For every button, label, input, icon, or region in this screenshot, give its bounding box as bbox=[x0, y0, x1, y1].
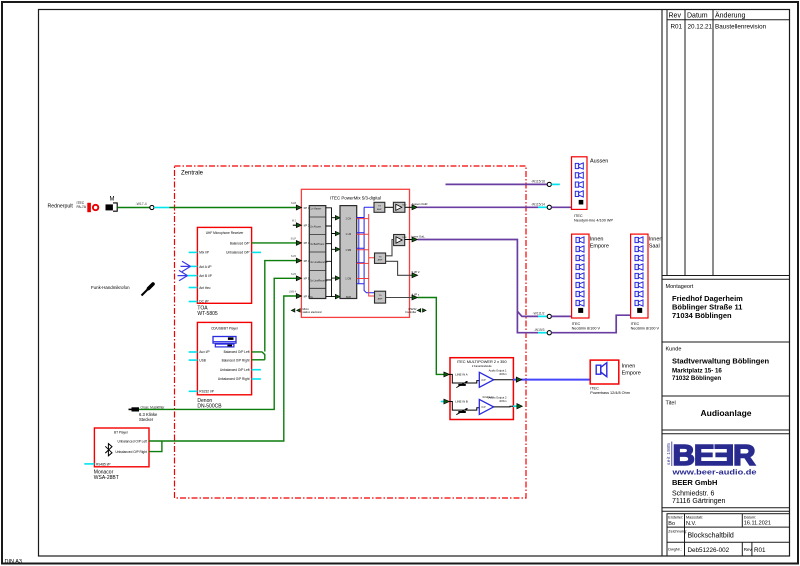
wire Denon Balanced O/P Left to mixer input 4 (green) bbox=[252, 261, 297, 360]
svg-text:ITEC: ITEC bbox=[631, 322, 640, 326]
output arrow bbox=[412, 273, 418, 278]
svg-text:RS232 I/P: RS232 I/P bbox=[199, 390, 214, 394]
wire Monacor O/P Right joins (green) bbox=[149, 441, 162, 452]
svg-text:Balanced O/P Right: Balanced O/P Right bbox=[222, 358, 250, 362]
DSP block A3 bbox=[375, 291, 386, 303]
svg-text:AMP: AMP bbox=[378, 297, 383, 300]
svg-text:UHF Microphone Receiver: UHF Microphone Receiver bbox=[206, 231, 244, 235]
svg-text:Marktplatz 15- 16: Marktplatz 15- 16 bbox=[672, 368, 722, 375]
BT player U3 Monacor WSA-28BT box bbox=[94, 428, 149, 467]
matrix input arrows bbox=[335, 216, 340, 221]
speaker 5 bbox=[576, 273, 584, 279]
svg-text:Ant B I/P: Ant B I/P bbox=[199, 274, 212, 278]
svg-text:Zeichnung:: Zeichnung: bbox=[668, 530, 687, 534]
svg-text:Montageort: Montageort bbox=[666, 284, 694, 290]
speaker 8 bbox=[576, 300, 584, 306]
wire W115/14 mixer to Aussen speakers (purple) bbox=[418, 206, 538, 208]
svg-text:TG: TG bbox=[378, 206, 381, 208]
svg-text:Massstab:: Massstab: bbox=[686, 516, 703, 520]
svg-text:DwgNr.:: DwgNr.: bbox=[668, 548, 682, 552]
amp input B arrow bbox=[444, 399, 450, 404]
speaker 4 bbox=[635, 264, 643, 270]
separator bbox=[662, 395, 790, 397]
svg-text:-W111/2: -W111/2 bbox=[533, 312, 545, 316]
TOA unbalanced stub (cyan) bbox=[252, 251, 261, 253]
svg-text:4Ohm: 4Ohm bbox=[499, 372, 507, 376]
svg-text:100V: 100V bbox=[402, 205, 407, 207]
svg-text:USB: USB bbox=[199, 358, 206, 362]
svg-text:Rev: Rev bbox=[744, 547, 753, 552]
internal blue bus wires bbox=[357, 218, 364, 284]
output arrow bbox=[412, 205, 418, 210]
wire amp to subwoofer (blue) bbox=[513, 379, 590, 381]
svg-text:1 CH: 1 CH bbox=[345, 218, 351, 221]
svg-text:-W115/18: -W115/18 bbox=[531, 180, 545, 184]
svg-text:Datum: Datum bbox=[687, 13, 708, 20]
svg-text:Titel: Titel bbox=[666, 401, 676, 407]
DSP block A1 bbox=[374, 202, 385, 212]
svg-text:4x LineReceive: 4x LineReceive bbox=[310, 261, 328, 264]
svg-text:Mix I/P: Mix I/P bbox=[199, 251, 209, 255]
svg-text:Zentrale: Zentrale bbox=[181, 171, 204, 177]
wire Denon Balanced O/P Right joins (green) bbox=[252, 359, 265, 361]
svg-text:Rev: Rev bbox=[669, 13, 682, 20]
svg-text:ITEC PowerMix 5/3-digital: ITEC PowerMix 5/3-digital bbox=[330, 195, 381, 200]
svg-text:M 2: M 2 bbox=[292, 220, 297, 223]
svg-text:Deb51226-002: Deb51226-002 bbox=[688, 547, 730, 554]
separator bbox=[662, 341, 790, 343]
svg-text:www.beer-audio.de: www.beer-audio.de bbox=[671, 468, 756, 477]
svg-text:Unbalanced O/P Left: Unbalanced O/P Left bbox=[117, 440, 147, 444]
wire DSP2 up to amp2 bbox=[386, 240, 394, 256]
wire amp A to border bbox=[494, 379, 513, 381]
svg-text:2x Alcove: 2x Alcove bbox=[310, 226, 321, 229]
Zentrale boundary (dashed red) bbox=[175, 166, 527, 498]
subwoofer LS4 Innen Empore box bbox=[590, 360, 619, 384]
op-amp A (channel A power stage) bbox=[479, 372, 493, 387]
speaker 2 bbox=[575, 172, 583, 178]
wireless handheld microphone icon bbox=[142, 289, 149, 296]
loudspeaker group LS1 Aussen box bbox=[572, 157, 588, 210]
svg-text:NeoSlim 8/100 V: NeoSlim 8/100 V bbox=[572, 326, 601, 330]
svg-text:CD/USB/BT Player: CD/USB/BT Player bbox=[211, 327, 239, 331]
svg-text:Aussen: Aussen bbox=[590, 159, 608, 165]
output 2 cyan stub bbox=[513, 405, 517, 407]
svg-text:PA-7A: PA-7A bbox=[77, 205, 87, 209]
wire amp1 to border bbox=[405, 206, 412, 208]
svg-text:2 Kanal Endstufe: 2 Kanal Endstufe bbox=[472, 364, 492, 368]
svg-text:DIN A3: DIN A3 bbox=[5, 559, 22, 565]
svg-text:4Ohm: 4Ohm bbox=[499, 399, 507, 403]
amp channel B wiring with level control bbox=[450, 402, 480, 411]
small table grid bbox=[667, 514, 790, 556]
svg-text:Innen: Innen bbox=[622, 363, 636, 369]
svg-text:Empore: Empore bbox=[590, 244, 609, 250]
svg-text:DN-500CB: DN-500CB bbox=[197, 403, 222, 409]
subwoofer speaker symbol bbox=[596, 365, 601, 374]
svg-text:ITEC MULTIPOWER 2 x 350: ITEC MULTIPOWER 2 x 350 bbox=[457, 359, 508, 364]
svg-text:1 SM: 1 SM bbox=[345, 249, 351, 252]
svg-text:Schmiedstr. 6: Schmiedstr. 6 bbox=[672, 491, 715, 498]
svg-text:Controller: Controller bbox=[405, 310, 416, 314]
speaker 5 bbox=[635, 273, 643, 279]
amp input A arrow bbox=[444, 372, 450, 377]
svg-text:ITEC: ITEC bbox=[572, 322, 581, 326]
svg-text:LINE IN B: LINE IN B bbox=[455, 399, 468, 403]
wire amp B to border bbox=[494, 405, 513, 408]
wire mic to connector (green) bbox=[117, 207, 150, 209]
svg-text:Ant thru: Ant thru bbox=[199, 286, 210, 290]
svg-text:Empore: Empore bbox=[622, 370, 641, 376]
internal red bus wires bbox=[357, 219, 369, 279]
wire amp2 to border bbox=[405, 239, 412, 241]
speaker 6 bbox=[576, 282, 584, 288]
svg-text:71116 Gärtringen: 71116 Gärtringen bbox=[672, 498, 726, 505]
svg-text:station electronic: station electronic bbox=[303, 310, 323, 314]
svg-text:Neodym-line 4/100 WP: Neodym-line 4/100 WP bbox=[574, 218, 614, 222]
svg-text:R01: R01 bbox=[671, 24, 683, 31]
svg-text:TG: TG bbox=[378, 295, 381, 297]
svg-text:R01: R01 bbox=[754, 547, 766, 554]
wire TOA Balanced O/P to mixer input 3 (green) bbox=[252, 242, 297, 244]
svg-text:ITEC: ITEC bbox=[574, 214, 583, 218]
speaker 8 bbox=[635, 300, 643, 306]
mixer input block bbox=[309, 206, 326, 299]
svg-text:-W115/14: -W115/14 bbox=[531, 202, 545, 206]
svg-text:Ant A I/P: Ant A I/P bbox=[199, 265, 211, 269]
svg-text:S/LP: S/LP bbox=[291, 237, 297, 240]
line terminator bbox=[579, 200, 584, 205]
wire DSP3 to border bbox=[386, 297, 412, 299]
svg-text:AMP: AMP bbox=[377, 208, 382, 211]
Denon cyan stubs bbox=[189, 351, 198, 353]
mixer matrix block bbox=[340, 206, 357, 299]
receiver U1 TOA WT-5805 box bbox=[197, 227, 251, 303]
svg-text:Aux I/P: Aux I/P bbox=[199, 350, 209, 354]
svg-text:16.11.2021: 16.11.2021 bbox=[744, 521, 771, 527]
amp channel A wiring with level control bbox=[450, 374, 480, 383]
svg-text:S1/5: S1/5 bbox=[291, 273, 297, 276]
DSP block A2 bbox=[375, 253, 386, 263]
svg-text:Audioanlage: Audioanlage bbox=[700, 408, 751, 418]
svg-text:Powerbass 12/4/8 Ohm: Powerbass 12/4/8 Ohm bbox=[590, 391, 630, 395]
svg-text:3x Bal/Trans: 3x Bal/Trans bbox=[310, 243, 325, 246]
loudspeaker group LS2 Innen Empore box bbox=[572, 234, 589, 318]
connector circle bbox=[150, 205, 154, 209]
svg-text:Ersteller:: Ersteller: bbox=[668, 516, 683, 520]
output arrow bbox=[412, 237, 418, 242]
svg-text:NeoSlim 8/100 V: NeoSlim 8/100 V bbox=[631, 326, 660, 330]
svg-text:Rednerpult: Rednerpult bbox=[48, 204, 74, 210]
wire mixer to Innen Saal speakers (purple) bbox=[517, 311, 538, 332]
svg-text:Unbalanced O/P Left: Unbalanced O/P Left bbox=[220, 368, 250, 372]
svg-text:5x LineReceive: 5x LineReceive bbox=[310, 279, 328, 282]
svg-text:RS485 I/P: RS485 I/P bbox=[96, 462, 111, 466]
svg-text:S1/5: S1/5 bbox=[291, 255, 297, 258]
jack plug J1 (6.3 Klinke) bbox=[132, 407, 140, 411]
svg-text:Stecker: Stecker bbox=[139, 417, 154, 422]
svg-text:seit 1985: seit 1985 bbox=[666, 443, 672, 465]
wire DSP to amp1 bbox=[385, 206, 394, 208]
svg-text:BT Player: BT Player bbox=[114, 430, 129, 434]
title block left divider bbox=[661, 10, 663, 557]
separator double above small table bbox=[662, 507, 790, 509]
svg-text:1 CM: 1 CM bbox=[345, 278, 351, 281]
antenna A symbol bbox=[181, 261, 191, 271]
svg-text:Innen: Innen bbox=[590, 237, 604, 243]
speaker 7 bbox=[576, 291, 584, 297]
svg-text:S1/8: S1/8 bbox=[291, 202, 297, 205]
svg-text:Stadtverwaltung Böblingen: Stadtverwaltung Böblingen bbox=[672, 357, 770, 366]
BEER logo divider line bbox=[671, 442, 673, 467]
speaker 3 bbox=[635, 255, 643, 261]
svg-text:LINE IN A: LINE IN A bbox=[455, 372, 467, 376]
output 2 arrow bbox=[517, 404, 522, 409]
svg-text:Balanced O/P: Balanced O/P bbox=[230, 241, 250, 245]
svg-text:Funk-Handmikrofon: Funk-Handmikrofon bbox=[91, 285, 130, 290]
svg-text:DC I/P: DC I/P bbox=[199, 300, 208, 304]
revision table frame bbox=[666, 10, 668, 276]
wire W115/18 spare (purple) bbox=[446, 183, 548, 185]
svg-text:Datum:: Datum: bbox=[744, 516, 756, 520]
wire mixer sub out to power amp (green) bbox=[418, 298, 444, 375]
svg-text:Kunde: Kunde bbox=[666, 347, 682, 353]
title block separator above Montageort bbox=[662, 275, 790, 277]
svg-text:-W17-4: -W17-4 bbox=[136, 202, 147, 206]
power amp U5 ITEC MULTIPOWER box bbox=[450, 358, 513, 420]
CD player U2 Denon DN-500CB box bbox=[197, 322, 251, 394]
op-amp B (channel B power stage) bbox=[479, 399, 493, 414]
amplifier block PA1 bbox=[393, 202, 405, 212]
svg-text:AMP: AMP bbox=[378, 259, 383, 262]
svg-text:O/P: O/P bbox=[481, 405, 486, 409]
input 2 stub wire bbox=[293, 224, 297, 226]
XLR plug symbol bbox=[106, 204, 113, 210]
speaker 3 bbox=[575, 182, 583, 188]
svg-text:Unbalanced O/P Right: Unbalanced O/P Right bbox=[115, 450, 147, 454]
svg-text:O/P: O/P bbox=[481, 378, 486, 382]
svg-text:Änderung: Änderung bbox=[715, 12, 745, 20]
speaker 4 bbox=[575, 191, 583, 197]
svg-text:100V: 100V bbox=[402, 237, 407, 239]
svg-text:TG: TG bbox=[378, 256, 381, 258]
antenna B symbol bbox=[178, 270, 188, 280]
mixer input arrows (dark green) bbox=[296, 205, 301, 210]
speaker 1 bbox=[635, 237, 643, 243]
microphone M1 (Rednerpult, red symbol) bbox=[87, 203, 91, 212]
svg-text:N.V.: N.V. bbox=[686, 521, 697, 527]
svg-text:-W19/3: -W19/3 bbox=[534, 328, 545, 332]
svg-text:ITEC: ITEC bbox=[590, 387, 599, 391]
TOA cyan stubs bbox=[189, 251, 198, 253]
line terminator bbox=[637, 308, 642, 313]
svg-text:1x Master: 1x Master bbox=[310, 207, 321, 210]
output arrow bbox=[412, 295, 418, 300]
separator double bbox=[662, 429, 790, 431]
bluetooth symbol bbox=[105, 444, 112, 456]
svg-text:Unbalanced O/P Right: Unbalanced O/P Right bbox=[218, 377, 250, 381]
speaker 3 bbox=[576, 255, 584, 261]
CD player front-panel drawing bbox=[213, 337, 236, 344]
loudspeaker group LS3 Innen Saal box bbox=[631, 234, 648, 318]
wire Monacor O/P Left to mixer input 6 (green) bbox=[149, 296, 297, 441]
Monacor cyan stub bbox=[84, 463, 94, 465]
amplifier block PA2 bbox=[394, 235, 405, 246]
speaker 1 bbox=[575, 163, 583, 169]
mixer U4 ITEC PowerMix 5/3-digital box bbox=[301, 189, 409, 317]
svg-text:Bo: Bo bbox=[668, 521, 675, 527]
line terminator bbox=[578, 308, 583, 313]
svg-text:BEER GmbH: BEER GmbH bbox=[672, 478, 717, 487]
wire mixer to Innen Empore speakers (purple) bbox=[418, 240, 538, 317]
wire Klinke to mixer input 5 (green) bbox=[139, 278, 297, 409]
svg-text:Balanced O/P Left: Balanced O/P Left bbox=[224, 350, 250, 354]
svg-text:M: M bbox=[110, 197, 115, 203]
wire cyan segment bbox=[154, 207, 169, 209]
svg-text:Innen: Innen bbox=[649, 237, 663, 243]
svg-text:71034 Böblingen: 71034 Böblingen bbox=[672, 311, 732, 320]
svg-text:WSA-28BT: WSA-28BT bbox=[94, 475, 119, 481]
wires input block to matrix bbox=[326, 208, 336, 297]
wire DSP2 to output S I/P 2 bbox=[386, 261, 412, 275]
speaker 2 bbox=[635, 246, 643, 252]
output arrow on blue wire bbox=[516, 377, 521, 382]
speaker 2 bbox=[576, 246, 584, 252]
svg-text:Saal: Saal bbox=[649, 244, 660, 250]
svg-text:Unbalanced O/P: Unbalanced O/P bbox=[226, 251, 249, 255]
svg-text:Blockschaltbild: Blockschaltbild bbox=[688, 533, 734, 540]
svg-text:Baustellenrevision: Baustellenrevision bbox=[715, 24, 767, 31]
svg-text:20.12.21: 20.12.21 bbox=[688, 24, 713, 31]
wire to mixer input 1 (green) bbox=[169, 207, 296, 209]
speaker 4 bbox=[576, 264, 584, 270]
amp input B cyan stub bbox=[441, 401, 444, 403]
svg-text:1 LM: 1 LM bbox=[346, 233, 352, 236]
speaker 1 bbox=[576, 237, 584, 243]
svg-text:WT-5805: WT-5805 bbox=[197, 311, 218, 317]
svg-text:71032 Böblingen: 71032 Böblingen bbox=[672, 375, 721, 382]
svg-text:LNB 4: LNB 4 bbox=[289, 291, 297, 294]
svg-text:SUB: SUB bbox=[346, 296, 351, 299]
speaker 7 bbox=[635, 291, 643, 297]
speaker 6 bbox=[635, 282, 643, 288]
